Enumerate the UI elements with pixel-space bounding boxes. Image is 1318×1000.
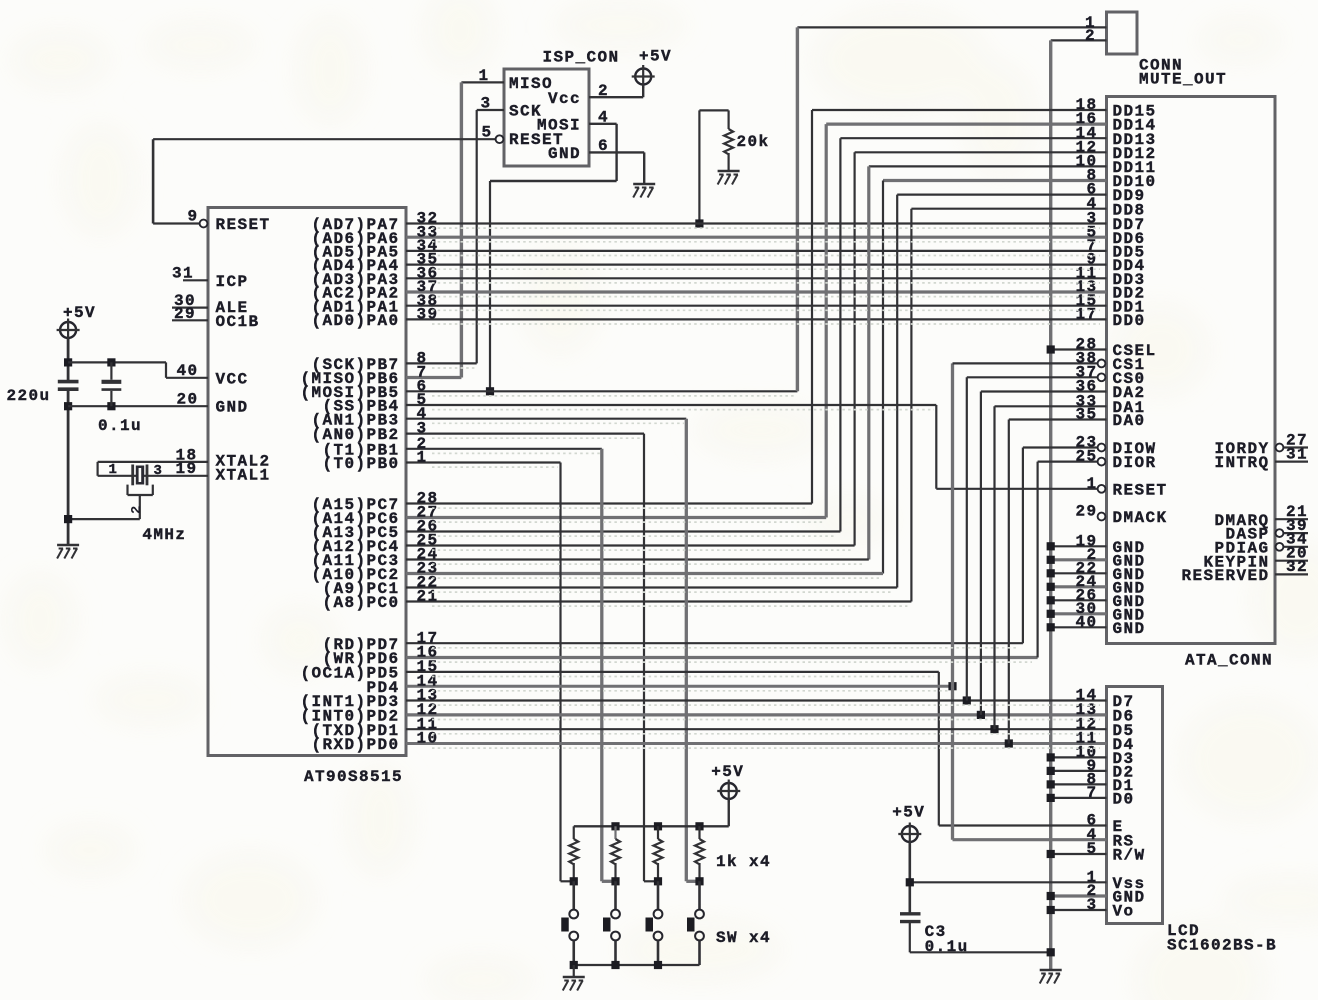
wire resonator ground run xyxy=(68,518,140,520)
wire AD1/PA1 to DD1 net xyxy=(406,305,1107,307)
label LCD D7 xyxy=(1113,693,1135,711)
label ATA DD1 xyxy=(1113,298,1146,316)
pin 24 U1 PC3 xyxy=(417,546,439,564)
label U1 XTAL2 xyxy=(216,453,271,471)
pin 12 U1 PD2 xyxy=(417,701,439,719)
label ATA DIOW xyxy=(1113,440,1157,458)
bubble ATA PDIAG xyxy=(1276,543,1284,551)
label ISP SCK xyxy=(509,103,542,121)
label ISP_CON xyxy=(543,49,620,67)
label U1 (AD4)PA4 xyxy=(311,257,399,275)
wire bus column A10/PC2 to DD10 xyxy=(882,181,884,574)
pin 39 U1 PA0 xyxy=(417,306,439,324)
junction PD3/CS0 xyxy=(963,696,971,704)
wire ATA GND stub 7 xyxy=(1051,626,1107,628)
svg-text:ISP_CON: ISP_CON xyxy=(543,49,620,67)
svg-text:AT90S8515: AT90S8515 xyxy=(304,768,403,786)
wire MOSI vertical segment xyxy=(615,124,617,181)
label ATA GND 6 xyxy=(1113,606,1146,624)
wire keys bottom rail xyxy=(574,964,700,966)
label U1 PD4 xyxy=(366,679,399,697)
pin 28 U1 PC7 xyxy=(417,490,439,508)
svg-text:32: 32 xyxy=(1286,558,1308,576)
label U1 (AN0)PB2 xyxy=(311,426,399,444)
pin 14 U1 PD4 xyxy=(417,672,439,690)
pin 1 MUTE_OUT xyxy=(1085,14,1096,32)
svg-text:MUTE_OUT: MUTE_OUT xyxy=(1139,71,1227,89)
wire keys +5V rail xyxy=(574,825,729,827)
label U1 (TXD)PD1 xyxy=(311,722,399,740)
bubble ATA DIOR xyxy=(1098,458,1106,466)
junction R5/SW4 xyxy=(695,877,703,885)
wire PD1 row to LCD D5 xyxy=(406,728,1107,730)
svg-text:VCC: VCC xyxy=(216,370,249,388)
resistor R1 20k xyxy=(724,110,733,171)
label LCD D5 xyxy=(1113,722,1135,740)
svg-text:RESET: RESET xyxy=(1113,481,1168,499)
label ATA CS1 xyxy=(1113,356,1146,374)
junction PD1/DA1 xyxy=(990,725,998,733)
wire DA2 column xyxy=(980,392,982,715)
pin 16 ATA DD14 xyxy=(1075,110,1097,128)
label resonator pin 2 xyxy=(129,506,145,514)
junction MOSI/PB5 xyxy=(486,387,494,395)
wire RESERVED stub xyxy=(1275,573,1308,575)
wire LCD D3 stub to GND rail xyxy=(1051,756,1107,758)
svg-text:10: 10 xyxy=(417,730,439,748)
label ATA DD13 xyxy=(1113,131,1157,149)
svg-text:1: 1 xyxy=(109,462,117,478)
pin 11 ATA DD3 xyxy=(1075,264,1097,282)
wire PD2 row to LCD D6 xyxy=(406,713,1107,716)
switch SW4 xyxy=(687,881,704,965)
wire A13/PC5 row xyxy=(406,530,840,532)
pin 1 ATA RESET xyxy=(1086,475,1097,493)
wire OC1B stub xyxy=(172,319,208,321)
wire PD7 (RD) row to DIOW xyxy=(406,642,1023,644)
wire A9/PC1 row xyxy=(406,586,897,588)
svg-text:1: 1 xyxy=(417,449,428,467)
pin 30 U1 ALE xyxy=(174,292,196,310)
label ATA DASP xyxy=(1225,526,1269,544)
label ATA CSEL xyxy=(1113,342,1157,360)
IC U1 AT90S8515 box xyxy=(208,208,406,756)
label U1 (A10)PC2 xyxy=(311,566,399,584)
label ATA IORDY xyxy=(1214,440,1269,458)
pin 6 LCD E xyxy=(1086,812,1097,830)
ground at GND rail bottom xyxy=(1040,970,1062,984)
label MUTE_OUT xyxy=(1139,71,1227,89)
pin 33 ATA DA1 xyxy=(1075,392,1097,410)
svg-text:R/W: R/W xyxy=(1113,847,1146,865)
label 1k x4 xyxy=(716,853,771,871)
wire RESET into U1 pin 9 xyxy=(153,222,200,224)
label ATA CS0 xyxy=(1113,370,1146,388)
svg-text:DD0: DD0 xyxy=(1113,312,1146,330)
junction 0.1u bottom xyxy=(107,402,115,410)
svg-text:5: 5 xyxy=(481,124,492,142)
svg-text:39: 39 xyxy=(417,306,439,324)
label AT90S8515 xyxy=(304,768,403,786)
svg-text:INTRQ: INTRQ xyxy=(1214,454,1269,472)
wire 20k tap vertical xyxy=(698,110,700,223)
wire +5V down to Vss xyxy=(908,843,911,913)
wire PB1 switch column xyxy=(600,449,603,882)
wire DD10 stub xyxy=(883,179,1107,182)
junction ATA GND 3 on rail xyxy=(1047,569,1055,577)
wire ATA GND stub 2 xyxy=(1051,558,1107,561)
pin 38 U1 PA1 xyxy=(417,292,439,310)
pin 32 U1 PA7 xyxy=(417,210,439,228)
wire DA2 stub xyxy=(981,390,1107,392)
svg-text:SW x4: SW x4 xyxy=(716,929,771,947)
wire DD14 stub xyxy=(826,122,1106,125)
label ATA DA1 xyxy=(1113,399,1146,417)
pin 4 LCD RS xyxy=(1086,826,1097,844)
pin 10 ATA DD11 xyxy=(1075,153,1097,171)
svg-text:(RXD)PD0: (RXD)PD0 xyxy=(311,736,399,754)
wire MOSI horizontal segment xyxy=(490,180,617,182)
label ISP +5V xyxy=(639,48,672,66)
wire A11/PC3 row xyxy=(406,558,869,560)
pin 31 U1 ICP xyxy=(172,265,194,283)
label LCD Vo xyxy=(1113,903,1135,921)
wire DD15 stub xyxy=(812,109,1107,111)
label LCD Vss xyxy=(1113,875,1146,893)
wire PB1 column jog xyxy=(602,880,616,883)
svg-text:GND: GND xyxy=(548,145,581,163)
label LCD D2 xyxy=(1113,764,1135,782)
wire ATA GND stub 3 xyxy=(1051,572,1107,574)
label U1 (T1)PB1 xyxy=(322,441,399,459)
label U1 (A14)PC6 xyxy=(311,510,399,528)
wire ISP pin3 SCK stub xyxy=(477,109,504,111)
label C3 xyxy=(925,923,947,941)
bubble ISP RESET xyxy=(496,135,504,143)
label ATA DD0 xyxy=(1113,312,1146,330)
label +5V at keys xyxy=(711,763,744,781)
label U1 (A13)PC5 xyxy=(311,524,399,542)
resistor R5 1k xyxy=(695,826,704,881)
svg-text:2: 2 xyxy=(598,82,609,100)
wire INTRQ stub xyxy=(1275,461,1308,463)
pin 7 ATA DD5 xyxy=(1086,237,1097,255)
junction 20k on AD7 line xyxy=(695,219,703,227)
pin 5 ISP xyxy=(481,124,492,142)
pin 4 ISP xyxy=(598,108,609,126)
svg-text:GND: GND xyxy=(216,399,249,417)
pin 6 ATA DD9 xyxy=(1086,181,1097,199)
pin 2 ISP xyxy=(598,82,609,100)
power +5V left xyxy=(57,319,80,342)
label SC1602BS-B xyxy=(1167,937,1277,955)
pin 32 ATA RESERVED xyxy=(1286,558,1308,576)
wire DD11 stub xyxy=(869,165,1107,167)
junction PD2/DA2 xyxy=(977,711,985,719)
label U1 (A8)PC0 xyxy=(322,594,399,612)
junction LCD D3 on rail xyxy=(1047,753,1055,761)
pin 27 U1 PC6 xyxy=(417,504,439,522)
pin 21 U1 PC0 xyxy=(417,588,439,606)
wire PD3 row to LCD D7 xyxy=(406,699,1107,701)
resonator X1 4MHz xyxy=(128,465,153,520)
svg-text:RESET: RESET xyxy=(216,216,271,234)
pin 16 U1 PD6 xyxy=(417,644,439,662)
pin 5 LCD R/W xyxy=(1086,840,1097,858)
wire ISP GND vertical xyxy=(643,152,645,184)
pin 27 ATA IORDY xyxy=(1286,431,1308,449)
junction GND tap xyxy=(64,402,72,410)
label ATA DD5 xyxy=(1113,244,1146,262)
wire AD4/PA4 to DD4 net xyxy=(406,264,1107,266)
pin 35 ATA DA0 xyxy=(1075,406,1097,424)
wire PB1 row xyxy=(406,448,602,450)
bubble ATA CS1 xyxy=(1098,360,1106,368)
junction resonator/left rail xyxy=(64,515,72,523)
wire ATA GND stub 6 xyxy=(1051,612,1107,615)
junction LCD R/W on rail xyxy=(1047,850,1055,858)
pin 17 U1 PD7 xyxy=(417,629,439,647)
pin 29 U1 OC1B xyxy=(174,305,196,323)
wire CS0 stub xyxy=(967,376,1098,378)
wire DIOW stub xyxy=(1023,446,1098,448)
label ATA DD14 xyxy=(1113,117,1157,135)
junction key rail 2 xyxy=(654,822,662,830)
wire A10/PC2 row xyxy=(406,572,883,575)
pin 5 U1 PB4 xyxy=(417,391,428,409)
pin 8 U1 PB7 xyxy=(417,350,428,368)
pin 1 LCD Vss xyxy=(1086,868,1097,886)
wire MUTE_OUT pin1 run xyxy=(797,26,1106,28)
label U1 (AD6)PA6 xyxy=(311,230,399,248)
wire AD2/PA2 to DD2 net xyxy=(406,290,1107,293)
label LCD D6 xyxy=(1113,708,1135,726)
label ATA DD2 xyxy=(1113,285,1146,303)
wire DA0 stub xyxy=(1009,418,1107,420)
svg-text:29: 29 xyxy=(174,305,196,323)
pin 13 ATA DD2 xyxy=(1075,278,1097,296)
wire 20k top link xyxy=(699,109,728,111)
label ISP MOSI xyxy=(537,117,581,135)
wire CS1/RS column xyxy=(951,363,954,839)
wire CS1 stub xyxy=(953,362,1098,364)
svg-text:4MHz: 4MHz xyxy=(142,526,186,544)
pin 30 ATA GND xyxy=(1075,600,1097,618)
pin 4 U1 PB3 xyxy=(417,405,428,423)
wire DA1 stub xyxy=(995,405,1107,407)
pin 24 ATA GND xyxy=(1075,573,1097,591)
pin 28 ATA CSEL xyxy=(1075,336,1097,354)
wire DA0 column xyxy=(1008,420,1010,744)
pin 26 ATA GND xyxy=(1075,586,1097,604)
junction R3/SW2 xyxy=(611,877,619,885)
svg-text:RESERVED: RESERVED xyxy=(1181,567,1269,585)
label ISP Vcc xyxy=(548,90,581,108)
junction ATA GND 5 on rail xyxy=(1047,596,1055,604)
ground at ISP_CON xyxy=(633,184,655,198)
svg-text:220u: 220u xyxy=(7,387,51,405)
junction key rail 1 xyxy=(611,822,619,830)
label LCD D3 xyxy=(1113,750,1135,768)
resistor R2 1k xyxy=(569,826,578,881)
label LCD D0 xyxy=(1113,791,1135,809)
label ATA GND 1 xyxy=(1113,539,1146,557)
pin 17 ATA DD0 xyxy=(1075,306,1097,324)
pin 3 ISP xyxy=(480,95,491,113)
wire XTAL2 row xyxy=(98,461,208,463)
pin 23 ATA DIOW xyxy=(1075,434,1097,452)
junction C3/GND rail xyxy=(1047,948,1055,956)
junction LCD GND on rail xyxy=(1047,892,1055,900)
capacitor C3 0.1u xyxy=(900,914,921,922)
label ATA PDIAG xyxy=(1214,539,1269,557)
junction LCD D2 on rail xyxy=(1047,767,1055,775)
wire PB3 column jog xyxy=(686,880,699,883)
label U1 XTAL1 xyxy=(216,466,271,484)
capacitor C1 220u xyxy=(58,382,79,390)
pin 38 ATA CS1 xyxy=(1075,350,1097,368)
wire PB0 switch column xyxy=(559,463,561,882)
label ATA DD8 xyxy=(1113,201,1146,219)
wire XTAL1 row xyxy=(98,475,208,477)
label ATA RESET xyxy=(1113,481,1168,499)
wire AD7/PA7 to DD7 net xyxy=(406,222,1107,224)
wire PB5 (MOSI) row xyxy=(406,390,797,392)
label ATA INTRQ xyxy=(1214,454,1269,472)
svg-text:DIOR: DIOR xyxy=(1113,454,1157,472)
junction R2/SW1 xyxy=(570,877,578,885)
wire resonator left drop xyxy=(96,462,98,476)
label U1 (AC2)PA2 xyxy=(311,285,399,303)
wire VCC run xyxy=(68,361,166,363)
pin 34 U1 PA5 xyxy=(417,237,439,255)
label U1 (AD7)PA7 xyxy=(311,216,399,234)
wire CS0 column xyxy=(966,377,968,700)
wire DD13 stub xyxy=(840,137,1106,139)
pin 3 LCD Vo xyxy=(1086,896,1097,914)
svg-text:DMACK: DMACK xyxy=(1113,509,1168,527)
label U1 (RXD)PD0 xyxy=(311,736,399,754)
label +5V at C3 xyxy=(892,804,925,822)
label ATA DIOR xyxy=(1113,454,1157,472)
pin 26 U1 PC5 xyxy=(417,518,439,536)
svg-text:4: 4 xyxy=(598,108,609,126)
pin 20 U1 GND xyxy=(176,391,198,409)
label ATA GND 2 xyxy=(1113,552,1146,570)
svg-text:31: 31 xyxy=(172,265,194,283)
wire bus column A15/PC7 to DD15 xyxy=(811,110,813,504)
wire DA1 column xyxy=(993,406,995,729)
pin 35 U1 PA4 xyxy=(417,251,439,269)
pin 13 LCD D6 xyxy=(1075,701,1097,719)
junction VCC tap xyxy=(64,358,72,366)
power +5V at ISP_CON xyxy=(632,65,655,88)
label U1 OC1B xyxy=(216,313,260,331)
wire MISO vertical to PB6 xyxy=(460,82,463,377)
pin 25 ATA DIOR xyxy=(1075,448,1097,466)
wire ISP pin2 Vcc stub xyxy=(589,96,643,98)
wire DIOW column xyxy=(1022,448,1024,644)
wire bus column A8/PC0 to DD8 xyxy=(910,209,912,602)
junction PD4/CS1/RS xyxy=(948,682,956,690)
wire AD0/PA0 to DD0 net xyxy=(406,318,1107,320)
wire ATA GND stub 4 xyxy=(1051,585,1107,588)
label U1 RESET xyxy=(216,216,271,234)
label U1 (AD5)PA5 xyxy=(311,244,399,262)
label U1 (MOSI)PB5 xyxy=(300,384,399,402)
wire CSEL stub xyxy=(1051,348,1107,350)
label ATA DD9 xyxy=(1113,187,1146,205)
label U1 (A9)PC1 xyxy=(322,580,399,598)
svg-text:DA0: DA0 xyxy=(1113,412,1146,430)
wire A12/PC4 row xyxy=(406,544,855,546)
ground at keys xyxy=(563,977,585,991)
label 220u xyxy=(7,387,51,405)
wire DD8 stub xyxy=(911,208,1106,210)
wire LCD D1 stub to GND rail xyxy=(1051,783,1107,785)
label ATA GND 3 xyxy=(1113,566,1146,584)
wire bus column A14/PC6 to DD14 xyxy=(825,124,828,517)
pin 19 U1 XTAL1 xyxy=(175,460,197,478)
junction ATA GND 2 on rail xyxy=(1047,556,1055,564)
ground at left rail xyxy=(57,545,79,559)
svg-text:5: 5 xyxy=(1086,840,1097,858)
bubble ATA RESET xyxy=(1098,485,1106,493)
label U1 ICP xyxy=(216,273,249,291)
label U1 (T0)PB0 xyxy=(322,455,399,473)
svg-text:+5V: +5V xyxy=(892,804,925,822)
connector ATA_CONN box xyxy=(1107,97,1276,644)
label ATA DD11 xyxy=(1113,159,1157,177)
svg-text:(A8)PC0: (A8)PC0 xyxy=(322,594,399,612)
label ATA DD3 xyxy=(1113,271,1146,289)
label U1 GND xyxy=(216,399,249,417)
wire AD5/PA5 to DD5 net xyxy=(406,250,1107,252)
label resonator pin 3 xyxy=(154,463,162,479)
pin 33 U1 PA6 xyxy=(417,223,439,241)
pin 8 ATA DD10 xyxy=(1086,167,1097,185)
pin 9 ATA DD4 xyxy=(1086,251,1097,269)
wire LCD D0 stub to GND rail xyxy=(1051,797,1107,799)
wire PDIAG stub xyxy=(1284,546,1308,548)
wire LCD RS row xyxy=(953,838,1107,841)
wire DD9 stub xyxy=(897,194,1106,196)
wire AD6/PA6 to DD6 net xyxy=(406,236,1107,239)
wire PD5 (OC1A) row to LCD E xyxy=(406,671,939,673)
label ATA DD10 xyxy=(1113,173,1157,191)
wire LCD R/W stub xyxy=(1051,853,1107,855)
pin 15 U1 PD5 xyxy=(417,658,439,676)
wire DIOR column xyxy=(1036,462,1038,658)
junction LCD Vo on rail xyxy=(1047,906,1055,914)
label ATA GND 7 xyxy=(1113,620,1146,638)
junction ATA GND 7 on rail xyxy=(1047,623,1055,631)
wire DMARQ stub xyxy=(1275,518,1308,520)
pin 39 ATA DASP xyxy=(1286,517,1308,535)
pin 18 ATA DD15 xyxy=(1075,96,1097,114)
wire MOSI drop to PB5 xyxy=(489,181,491,391)
junction keys bottom 2 xyxy=(611,961,619,969)
resistor R3 1k xyxy=(611,826,620,881)
bubble U1 RESET xyxy=(200,220,208,228)
pin 37 U1 PA2 xyxy=(417,278,439,296)
junction LCD D1 on rail xyxy=(1047,780,1055,788)
pin 4 ATA DD8 xyxy=(1086,195,1097,213)
junction ATA GND 1 on rail xyxy=(1047,542,1055,550)
pin 8 LCD D1 xyxy=(1086,771,1097,789)
wire LCD E column xyxy=(938,672,940,826)
label U1 (SCK)PB7 xyxy=(311,356,399,374)
